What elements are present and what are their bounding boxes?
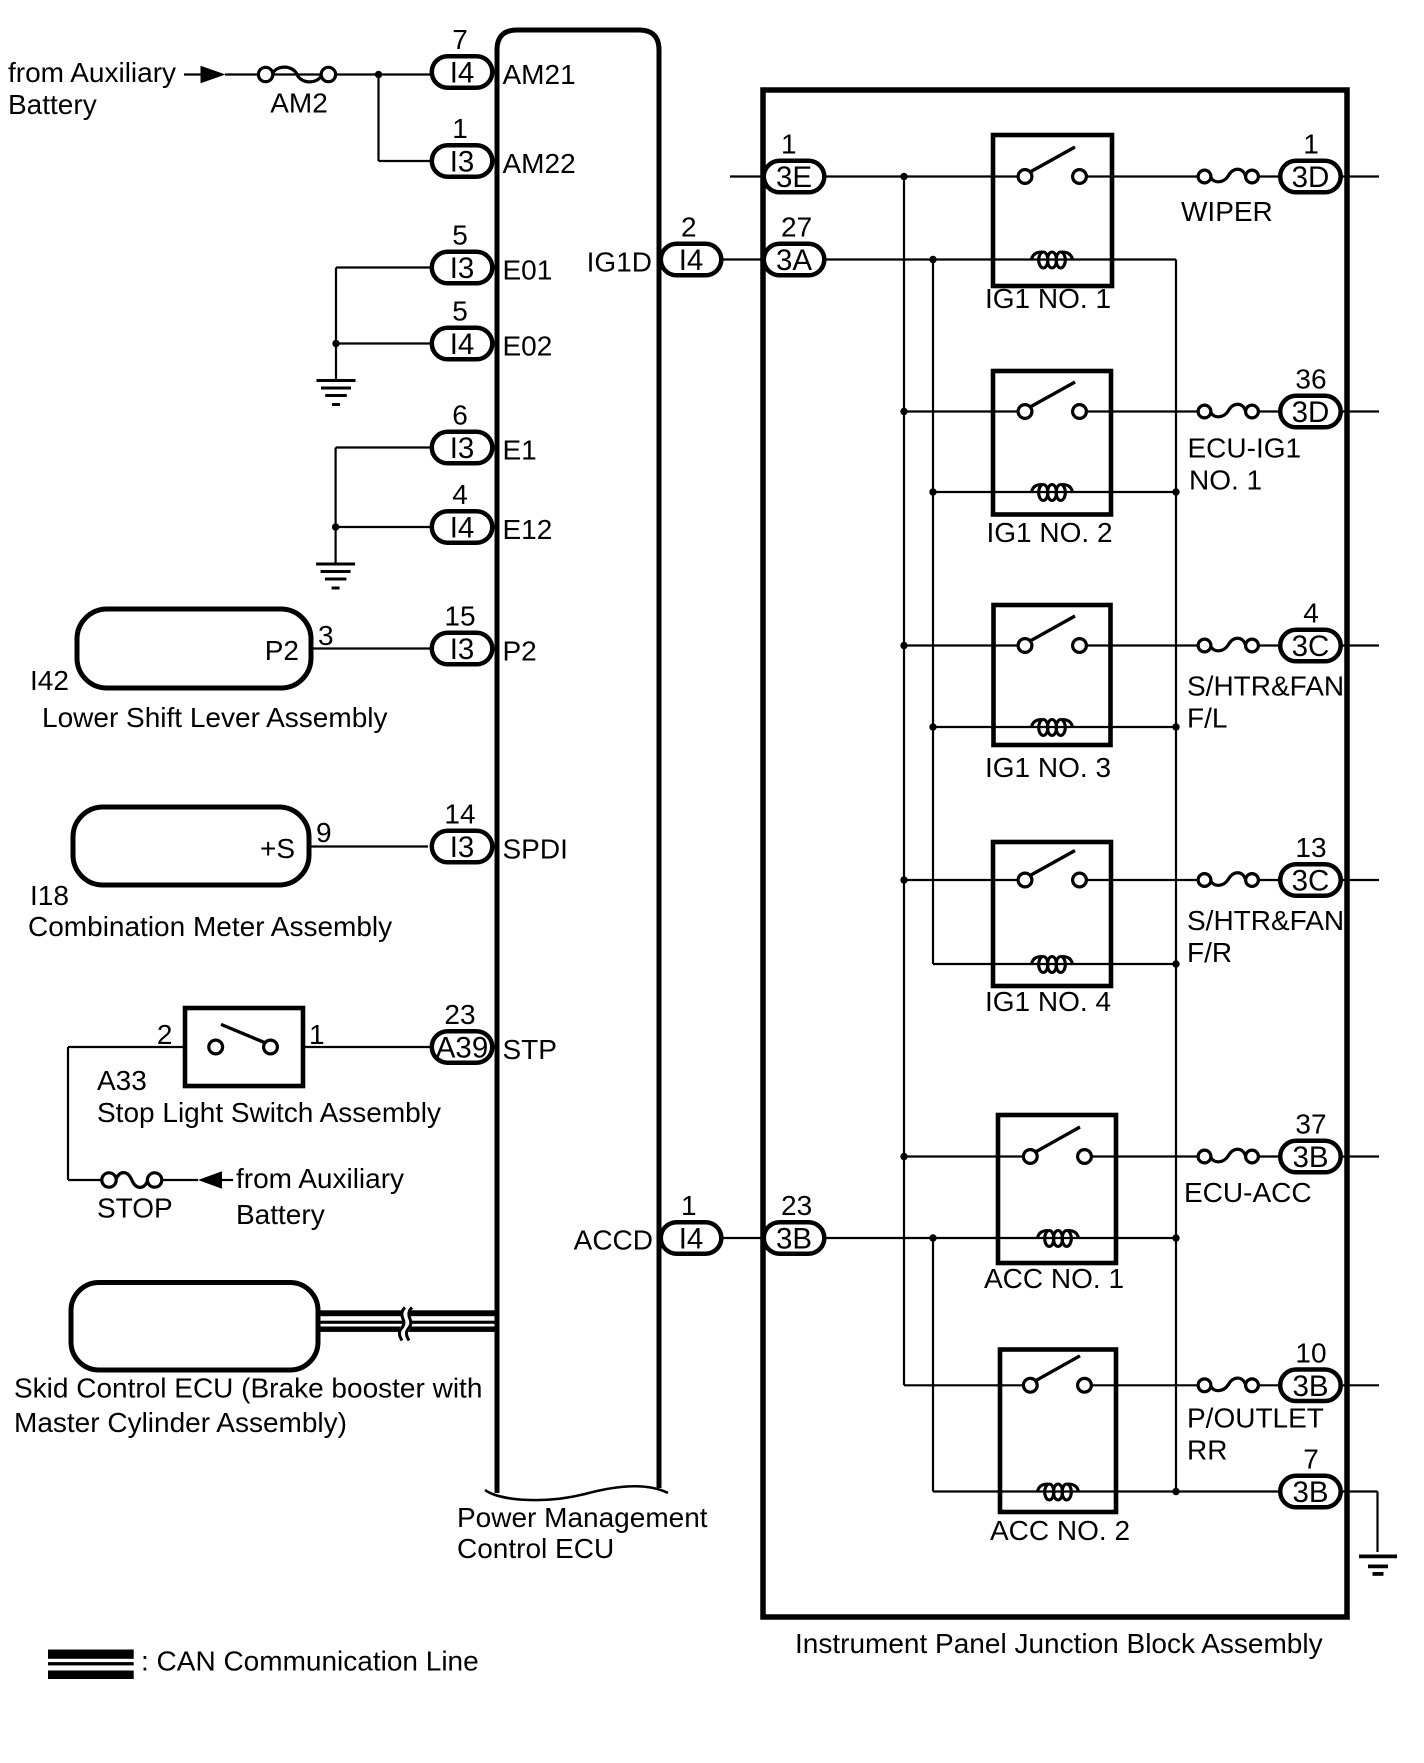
- svg-text:Master Cylinder Assembly): Master Cylinder Assembly): [14, 1407, 347, 1438]
- svg-text:3D: 3D: [1292, 161, 1330, 194]
- svg-text:I4: I4: [450, 512, 475, 545]
- svg-text:+S: +S: [260, 833, 295, 864]
- svg-text:I3: I3: [450, 146, 475, 179]
- svg-text:ACC NO. 1: ACC NO. 1: [984, 1263, 1124, 1294]
- svg-text:Lower Shift Lever Assembly: Lower Shift Lever Assembly: [42, 702, 388, 733]
- svg-text:IG1 NO. 3: IG1 NO. 3: [985, 752, 1111, 783]
- svg-text:Control ECU: Control ECU: [457, 1533, 614, 1564]
- svg-text:2: 2: [157, 1019, 173, 1050]
- svg-text:STOP: STOP: [97, 1193, 173, 1224]
- svg-text:SPDI: SPDI: [503, 834, 568, 865]
- svg-text:P/OUTLET: P/OUTLET: [1187, 1403, 1324, 1434]
- svg-text:1: 1: [681, 1190, 697, 1221]
- svg-text:Power Management: Power Management: [457, 1502, 708, 1533]
- svg-text:3B: 3B: [1292, 1141, 1328, 1174]
- svg-text:3C: 3C: [1292, 865, 1330, 898]
- svg-text:10: 10: [1295, 1337, 1326, 1368]
- svg-text:I4: I4: [679, 244, 704, 277]
- svg-text:Battery: Battery: [236, 1199, 325, 1230]
- svg-text:ACC NO. 2: ACC NO. 2: [990, 1515, 1130, 1546]
- svg-text:I42: I42: [30, 665, 69, 696]
- svg-text:P2: P2: [265, 635, 299, 666]
- svg-text:3C: 3C: [1292, 630, 1330, 663]
- svg-text:37: 37: [1295, 1109, 1326, 1140]
- svg-text:ECU-IG1: ECU-IG1: [1188, 433, 1302, 464]
- svg-text:WIPER: WIPER: [1181, 196, 1273, 227]
- svg-text:RR: RR: [1187, 1435, 1227, 1466]
- svg-text:E01: E01: [503, 255, 553, 286]
- svg-text:P2: P2: [503, 636, 537, 667]
- svg-text:F/R: F/R: [1187, 937, 1232, 968]
- svg-text:S/HTR&FAN: S/HTR&FAN: [1187, 905, 1344, 936]
- svg-text:A39: A39: [436, 1032, 489, 1065]
- svg-text:S/HTR&FAN: S/HTR&FAN: [1187, 671, 1344, 702]
- svg-text:AM2: AM2: [270, 88, 328, 119]
- svg-text:IG1D: IG1D: [587, 247, 652, 278]
- svg-text:Stop Light Switch Assembly: Stop Light Switch Assembly: [97, 1097, 441, 1128]
- svg-text:Combination Meter Assembly: Combination Meter Assembly: [28, 911, 392, 942]
- svg-text:NO. 1: NO. 1: [1189, 465, 1262, 496]
- svg-text:5: 5: [452, 296, 468, 327]
- svg-text:5: 5: [452, 220, 468, 251]
- svg-text:: CAN Communication Line: : CAN Communication Line: [141, 1646, 479, 1677]
- svg-text:2: 2: [681, 212, 697, 243]
- svg-text:I4: I4: [679, 1223, 704, 1256]
- svg-text:4: 4: [452, 479, 468, 510]
- svg-text:3: 3: [318, 620, 334, 651]
- svg-text:I3: I3: [450, 432, 475, 465]
- svg-text:F/L: F/L: [1187, 703, 1227, 734]
- svg-text:15: 15: [444, 601, 475, 632]
- svg-text:3B: 3B: [1292, 1370, 1328, 1403]
- svg-text:E02: E02: [503, 331, 553, 362]
- svg-text:1: 1: [309, 1019, 325, 1050]
- svg-text:E12: E12: [503, 514, 553, 545]
- svg-text:27: 27: [781, 212, 812, 243]
- svg-text:Battery: Battery: [8, 89, 97, 120]
- svg-text:7: 7: [452, 24, 468, 55]
- svg-text:3D: 3D: [1292, 396, 1330, 429]
- svg-text:1: 1: [1303, 129, 1319, 160]
- svg-text:I3: I3: [450, 831, 475, 864]
- svg-text:E1: E1: [503, 435, 537, 466]
- svg-text:3A: 3A: [776, 244, 812, 277]
- svg-text:from Auxiliary: from Auxiliary: [236, 1163, 404, 1194]
- svg-text:from Auxiliary: from Auxiliary: [8, 57, 176, 88]
- svg-text:1: 1: [452, 113, 468, 144]
- svg-text:4: 4: [1303, 598, 1319, 629]
- svg-text:AM22: AM22: [503, 148, 576, 179]
- svg-text:I18: I18: [30, 880, 69, 911]
- svg-text:I3: I3: [450, 633, 475, 666]
- svg-text:I3: I3: [450, 252, 475, 285]
- svg-text:Skid Control ECU (Brake booste: Skid Control ECU (Brake booster with: [14, 1373, 482, 1404]
- svg-text:3E: 3E: [776, 161, 812, 194]
- svg-text:7: 7: [1303, 1444, 1319, 1475]
- svg-text:I4: I4: [450, 57, 475, 90]
- svg-text:9: 9: [316, 817, 332, 848]
- svg-text:IG1 NO. 1: IG1 NO. 1: [985, 283, 1111, 314]
- svg-text:ECU-ACC: ECU-ACC: [1184, 1177, 1312, 1208]
- svg-text:IG1 NO. 2: IG1 NO. 2: [987, 517, 1113, 548]
- svg-text:1: 1: [781, 129, 797, 160]
- svg-text:6: 6: [452, 400, 468, 431]
- svg-text:STP: STP: [503, 1034, 557, 1065]
- svg-text:3B: 3B: [776, 1223, 812, 1256]
- svg-text:36: 36: [1295, 364, 1326, 395]
- svg-text:14: 14: [444, 799, 475, 830]
- svg-text:AM21: AM21: [503, 59, 576, 90]
- svg-text:I4: I4: [450, 328, 475, 361]
- svg-text:Instrument Panel Junction Bloc: Instrument Panel Junction Block Assembly: [795, 1628, 1323, 1659]
- svg-text:ACCD: ACCD: [574, 1225, 653, 1256]
- svg-text:23: 23: [781, 1190, 812, 1221]
- svg-text:3B: 3B: [1292, 1476, 1328, 1509]
- svg-text:A33: A33: [97, 1065, 147, 1096]
- svg-text:IG1 NO. 4: IG1 NO. 4: [985, 986, 1111, 1017]
- svg-text:23: 23: [444, 999, 475, 1030]
- svg-text:13: 13: [1295, 832, 1326, 863]
